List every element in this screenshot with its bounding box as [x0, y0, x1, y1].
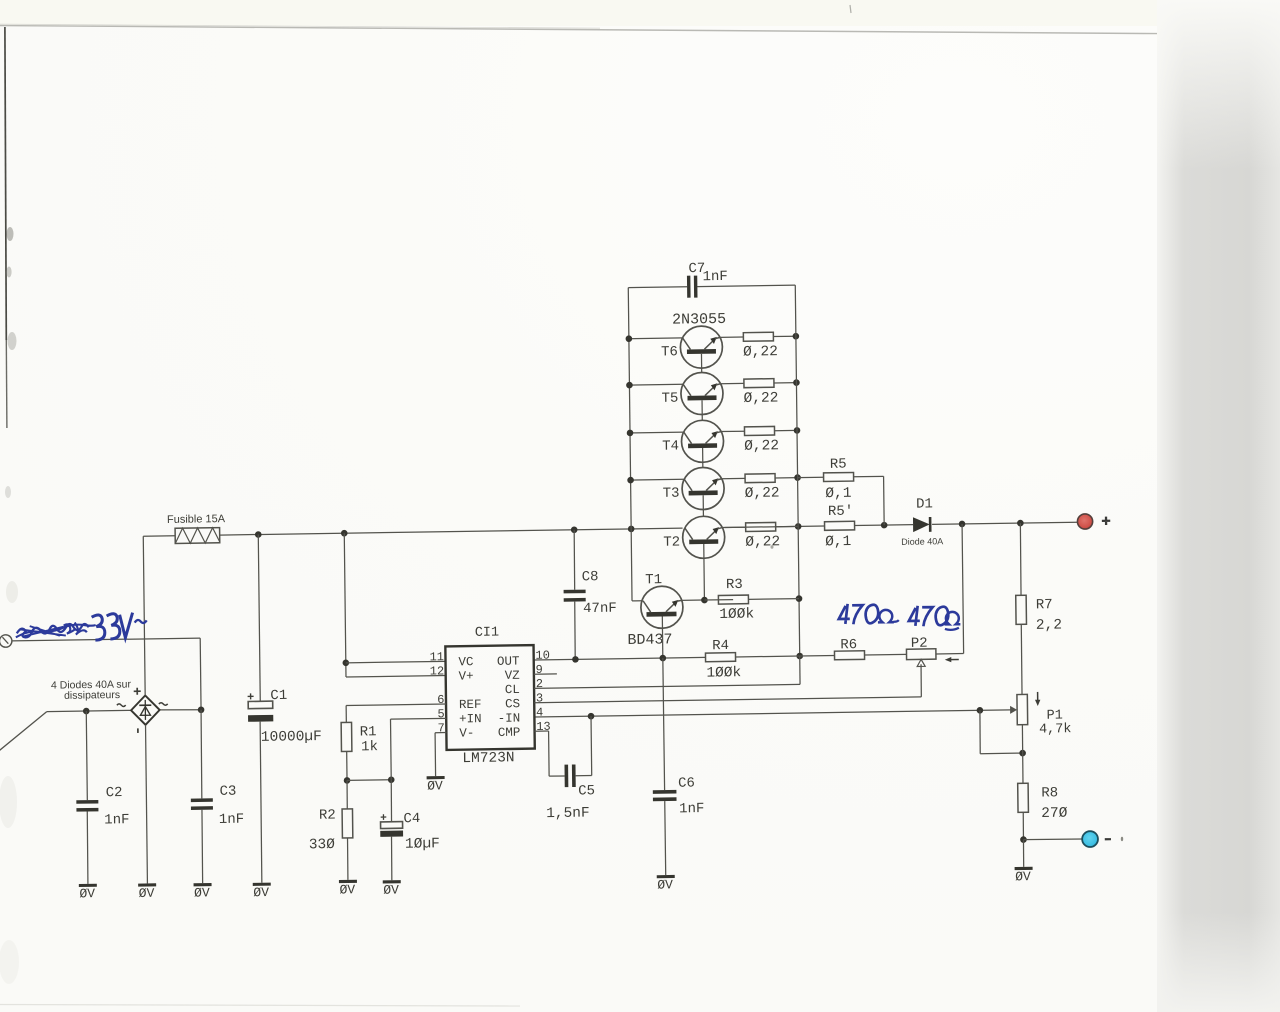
wire pin 13 CMP stub	[535, 730, 549, 732]
svg-text:CS: CS	[505, 697, 520, 711]
wire C4 to ground	[390, 837, 393, 881]
capacitor C3 1nF	[191, 798, 213, 802]
svg-text:R3: R3	[726, 577, 743, 593]
wire P2 wiper riser	[920, 664, 922, 697]
wire R3 to bus	[748, 598, 799, 601]
svg-text:1nF: 1nF	[219, 812, 244, 828]
resistor T2 emitter 0,22	[746, 522, 776, 531]
node T4 left bus junction	[627, 430, 634, 437]
capacitor C6 1nF	[653, 790, 677, 794]
wire T1 emitter to R3	[682, 599, 704, 601]
wire main positive rail left section	[220, 528, 683, 535]
svg-text:T2: T2	[663, 534, 680, 550]
resistor R7 2,2	[1016, 595, 1027, 624]
svg-text:ØV: ØV	[657, 877, 673, 892]
ground C6	[657, 875, 675, 878]
wire T4 emitter lead	[721, 430, 744, 432]
ground C4	[383, 880, 401, 883]
svg-text:Fusible 15A: Fusible 15A	[167, 513, 226, 526]
resistor R4 100k	[705, 653, 735, 662]
left page edge dark line	[5, 27, 6, 340]
wire T1 base down	[661, 616, 663, 658]
resistor R6 470	[834, 651, 864, 660]
resistor R5 0,1	[824, 472, 854, 481]
ground bridge	[138, 883, 156, 886]
wire pin 11 VC	[346, 661, 446, 662]
svg-text:2N3055: 2N3055	[672, 311, 726, 329]
bridge rectifier 4 diodes 40A	[131, 695, 160, 725]
svg-text:P2: P2	[911, 636, 928, 652]
wire rail to R7	[1020, 523, 1021, 595]
wire V- down	[434, 733, 437, 776]
svg-text:1k: 1k	[361, 739, 378, 755]
resistor T6 emitter 0,22	[743, 332, 773, 341]
svg-text:dissipateurs: dissipateurs	[64, 689, 120, 702]
svg-text:6: 6	[437, 693, 444, 707]
svg-text:C3: C3	[219, 784, 236, 800]
wire junction row	[347, 779, 391, 782]
node AC input terminal	[0, 635, 12, 648]
resistor T3 emitter 0,22	[745, 474, 775, 483]
svg-text:V+: V+	[459, 669, 474, 683]
svg-text:Ø,22: Ø,22	[744, 390, 779, 407]
svg-text:ØV: ØV	[339, 882, 355, 897]
handwriting scribble crossed out 230V	[17, 624, 89, 638]
svg-text:T3: T3	[663, 486, 680, 502]
adjust arrow left near P2	[948, 659, 959, 661]
resistor R8 270	[1018, 783, 1029, 812]
svg-text:D1: D1	[916, 496, 933, 512]
node rail junction emitter bus	[795, 523, 802, 530]
label bridge -	[137, 728, 139, 733]
wire T1 collector drop	[630, 529, 633, 601]
svg-text:33Ø: 33Ø	[309, 837, 336, 853]
wire T2 0,22 to bus	[776, 525, 799, 527]
node T5 left bus junction	[626, 382, 633, 389]
node T6 right bus junction	[793, 333, 800, 340]
wire C6 bottom lead	[664, 801, 667, 875]
handwriting 470 ohm second	[909, 606, 920, 626]
svg-text:47nF: 47nF	[583, 601, 617, 618]
fuse F1 Fusible 15A	[175, 528, 220, 544]
wire R6 to P2	[865, 653, 907, 656]
svg-text:27Ø: 27Ø	[1041, 806, 1068, 822]
resistor R1 1k	[341, 722, 352, 751]
left edge smudges	[7, 227, 14, 241]
svg-text:V-: V-	[459, 726, 474, 740]
svg-text:R4: R4	[712, 638, 729, 654]
svg-text:1ØØk: 1ØØk	[719, 606, 754, 623]
svg-text:T6: T6	[661, 344, 678, 360]
wire R8 to minus node	[1022, 812, 1024, 839]
wire C1 bottom lead	[260, 722, 262, 883]
svg-text:R5: R5	[830, 457, 847, 473]
wire bridge left AC wire	[47, 710, 131, 711]
svg-text:C8: C8	[582, 569, 599, 585]
svg-text:1nF: 1nF	[702, 269, 727, 285]
terminal + output red	[1077, 514, 1092, 529]
svg-text:1ØØk: 1ØØk	[706, 665, 741, 682]
wire R2 to ground	[346, 838, 349, 880]
wire emitter bus	[795, 285, 799, 656]
svg-text:R1: R1	[360, 724, 377, 740]
node bus R4 junction	[796, 653, 803, 660]
svg-text:ØV: ØV	[1015, 869, 1031, 884]
wire T5 emitter lead	[721, 382, 744, 384]
label bridge +	[134, 688, 141, 695]
svg-text:ØV: ØV	[383, 883, 399, 898]
wire C2 bottom lead	[87, 812, 88, 884]
svg-text:OUT: OUT	[497, 655, 520, 669]
wire R4 to node	[736, 655, 800, 658]
transistor T5 2N3055	[681, 372, 724, 415]
svg-text:LM723N: LM723N	[462, 750, 514, 767]
node junction output minus	[1020, 836, 1027, 843]
node rail junction C8	[571, 526, 578, 533]
wire P1 to R8	[1021, 725, 1024, 784]
svg-text:Diode 40A: Diode 40A	[901, 536, 943, 547]
label bridge ~ left	[117, 704, 126, 707]
transistor T4 2N3055	[681, 420, 724, 463]
svg-text:1nF: 1nF	[679, 801, 704, 817]
wire 0,22 to bus	[775, 477, 798, 479]
svg-text:Ø,1: Ø,1	[825, 486, 851, 502]
wire P1 tap across	[980, 752, 1022, 755]
svg-text:1,5nF: 1,5nF	[546, 805, 590, 822]
wire AC input to corner	[12, 638, 200, 641]
down arrow near P1	[1037, 692, 1039, 703]
wire rail D1 to + terminal	[932, 522, 1077, 524]
node T5 right bus junction	[793, 379, 800, 386]
wire REF down to R1	[345, 706, 347, 723]
label + output	[1102, 517, 1111, 526]
capacitor C7 1nF	[687, 276, 691, 298]
wire T4 collector row	[630, 431, 684, 434]
node junction P1 lower tap	[977, 707, 984, 714]
wire C4 top lead	[390, 780, 393, 822]
wire T6 emitter lead	[720, 336, 743, 338]
wire OUT row from IC	[534, 657, 706, 660]
svg-text:2,2: 2,2	[1036, 617, 1062, 633]
resistor R2 330	[342, 809, 353, 838]
svg-text:ØV: ØV	[139, 886, 155, 901]
wire T3 emitter lead	[722, 477, 745, 479]
wire +IN riser	[390, 719, 393, 780]
node T1 emitter / base chain	[701, 597, 708, 604]
svg-text:10: 10	[535, 649, 550, 663]
wire R1 to junction	[346, 751, 348, 780]
svg-text:C5: C5	[578, 783, 595, 799]
svg-text:R7: R7	[1036, 597, 1053, 613]
wire pin 7 V- stub	[435, 732, 446, 734]
wire bridge - down to ground	[146, 725, 148, 884]
svg-text:T5: T5	[662, 391, 679, 407]
capacitor C8 47nF	[564, 590, 586, 594]
wire base chain T5-T4	[701, 400, 703, 420]
wire C1 top lead	[258, 535, 260, 702]
wire T6 collector row	[629, 337, 683, 340]
capacitor C5 1,5nF	[564, 765, 568, 788]
svg-text:CMP: CMP	[498, 726, 521, 740]
node rail junction V+ branch	[341, 530, 348, 537]
node T3 right bus junction	[794, 474, 801, 481]
wire base chain T2 to T1 emitter	[703, 544, 706, 600]
wire bus to R5	[798, 476, 824, 478]
potentiometer P2	[906, 649, 936, 660]
ground R8	[1015, 867, 1033, 870]
wire base chain T6-T5	[700, 354, 702, 373]
svg-text:-IN: -IN	[498, 712, 521, 726]
handwriting 470 ohm first	[839, 604, 850, 624]
wire pin 12 V+	[346, 676, 446, 677]
svg-text:C4: C4	[403, 811, 420, 827]
pin 9 stub	[534, 673, 557, 675]
transistor T3 2N3055	[682, 467, 725, 510]
node T6 left bus junction	[626, 335, 633, 342]
wire 0,22 to bus	[775, 429, 798, 431]
svg-text:C6: C6	[678, 776, 695, 792]
svg-text:4: 4	[536, 706, 543, 720]
svg-text:1nF: 1nF	[104, 812, 129, 828]
svg-text:2: 2	[536, 677, 543, 691]
svg-text:7: 7	[438, 721, 445, 735]
wire C3 bottom lead	[202, 810, 203, 883]
svg-text:Ø,22: Ø,22	[745, 534, 780, 551]
wire V+ branch down	[344, 533, 346, 677]
node T3 left bus junction	[627, 477, 634, 484]
wire base chain T4-T3	[702, 448, 704, 468]
wire P2 to D1 node riser	[962, 524, 964, 654]
wire R7 to P1	[1020, 624, 1023, 694]
wire pin 2 CL	[534, 684, 800, 688]
wire rail R5' to D1	[855, 524, 914, 527]
svg-text:Ø,22: Ø,22	[745, 485, 780, 502]
wire pin 5 +IN	[391, 717, 447, 720]
terminal - output blue	[1082, 831, 1098, 847]
svg-text:+IN: +IN	[459, 712, 482, 726]
wire R5 riser down	[883, 476, 886, 525]
node junction T1 base	[659, 655, 666, 662]
scanner background band right of page edge	[1157, 0, 1280, 1012]
wire minus node to terminal	[1023, 839, 1082, 840]
wire 0,22 to bus	[774, 382, 797, 384]
capacitor C1 10000uF electrolytic	[248, 701, 273, 709]
capacitor C2 1nF	[76, 800, 98, 804]
wire C5 right riser	[590, 716, 593, 775]
wire bridge + up to fuse	[143, 536, 145, 695]
transistor T6 2N3055	[680, 326, 723, 369]
svg-text:ØV: ØV	[79, 886, 95, 901]
svg-text:T4: T4	[662, 438, 679, 454]
node junction R1 R2	[344, 777, 351, 784]
capacitor C4 10uF electrolytic	[381, 822, 403, 829]
ground R2	[339, 880, 357, 883]
wire C7 row right	[697, 285, 795, 286]
handwriting 33V	[92, 615, 105, 640]
svg-text:VZ: VZ	[505, 669, 521, 683]
node rail junction output sense	[959, 521, 966, 528]
label - output	[1105, 838, 1111, 840]
wire T5 collector row	[629, 383, 683, 386]
wire C8 bottom lead	[574, 602, 577, 660]
wire C8 top lead	[573, 530, 576, 590]
node rail junction R5 join	[881, 522, 888, 529]
page top edge line	[0, 26, 1157, 34]
label bridge ~ right	[159, 703, 168, 706]
node junction pin11	[342, 659, 349, 666]
svg-text:REF: REF	[459, 698, 482, 712]
svg-text:ØV: ØV	[194, 885, 210, 900]
svg-text:3: 3	[536, 691, 543, 705]
node bus R3 junction	[796, 595, 803, 602]
svg-text:CI1: CI1	[475, 626, 499, 641]
node rail junction R7	[1017, 520, 1024, 527]
node rail junction T1 collector bus	[628, 526, 635, 533]
svg-text:Ø,22: Ø,22	[743, 344, 778, 361]
ground C3	[194, 883, 212, 886]
node junction C3 tap	[198, 706, 205, 713]
svg-text:C2: C2	[106, 785, 123, 801]
ground V-	[427, 776, 445, 779]
svg-text:4,7k: 4,7k	[1039, 722, 1072, 737]
svg-text:Ø,1: Ø,1	[825, 534, 851, 550]
svg-text:T1: T1	[645, 572, 662, 588]
wire 0,22 to bus	[773, 335, 796, 337]
svg-text:9: 9	[536, 663, 543, 677]
wire minus node to ground	[1022, 840, 1024, 867]
svg-text:ØV: ØV	[253, 885, 269, 900]
ground C2	[79, 884, 97, 887]
wire CL riser	[799, 656, 801, 684]
svg-text:R6: R6	[840, 637, 857, 653]
svg-text:R5′: R5′	[828, 504, 853, 520]
wire node to R6	[800, 654, 835, 657]
ground C1	[253, 883, 271, 886]
wire pin 3 CS	[534, 697, 921, 703]
svg-text:Ø,22: Ø,22	[744, 438, 779, 455]
wire T2 emitter lead	[722, 526, 745, 528]
svg-text:11: 11	[429, 650, 444, 664]
svg-text:10000µF: 10000µF	[261, 729, 322, 746]
node junction C8 bottom	[572, 656, 579, 663]
svg-text:R2: R2	[319, 807, 336, 823]
diode D1 40A	[913, 517, 930, 532]
svg-text:5: 5	[437, 707, 444, 721]
wire P2 right lead	[936, 653, 964, 655]
svg-text:12: 12	[430, 664, 445, 678]
node T4 right bus junction	[794, 427, 801, 434]
transistor T2 2N3055	[682, 516, 725, 559]
wire C5 left riser	[548, 731, 551, 776]
wire pin 6 REF	[346, 704, 446, 705]
resistor T5 emitter 0,22	[744, 379, 774, 388]
wire T1 base / C6 line	[663, 658, 665, 790]
wire base chain T3-T2	[702, 495, 704, 516]
svg-text:VC: VC	[458, 655, 473, 669]
svg-text:ØV: ØV	[427, 778, 443, 793]
wire bridge right AC wire	[160, 709, 201, 710]
node rail junction C1	[255, 531, 262, 538]
resistor R3 100k	[718, 595, 748, 604]
node junction C5 right	[588, 713, 595, 720]
wire main rail T2 to R5'	[725, 526, 825, 528]
wire T3 collector row	[631, 478, 685, 481]
wire -IN row to P1 wiper	[534, 710, 1010, 717]
svg-text:C1: C1	[270, 688, 287, 704]
svg-text:1ØµF: 1ØµF	[405, 836, 440, 853]
svg-text:R8: R8	[1041, 785, 1058, 801]
wire C2 top lead	[86, 711, 87, 800]
resistor T4 emitter 0,22	[744, 426, 774, 435]
wire AC lower diagonal	[0, 712, 47, 751]
svg-text:BD437: BD437	[627, 631, 672, 649]
wire R5 to riser	[854, 475, 884, 477]
potentiometer P1 4,7k	[1017, 694, 1028, 724]
wire C3 top lead	[201, 710, 202, 799]
node junction C2 tap	[83, 708, 90, 715]
node junction P1 bottom	[1019, 750, 1026, 757]
wire collector bus	[628, 288, 631, 529]
transistor T1 BD437	[641, 586, 684, 629]
resistor R5' 0,1	[825, 521, 855, 530]
svg-text:CL: CL	[505, 683, 520, 697]
wire R2 top	[346, 780, 348, 809]
wire C7 row left	[628, 286, 687, 289]
wire C5 right lead	[576, 775, 592, 777]
wire P1 tap down	[979, 710, 982, 753]
node junction C4	[388, 776, 395, 783]
wire C5 left lead	[549, 775, 565, 777]
ic CI1 LM723N box	[445, 645, 534, 750]
wire AC drop to bridge node	[199, 638, 202, 710]
